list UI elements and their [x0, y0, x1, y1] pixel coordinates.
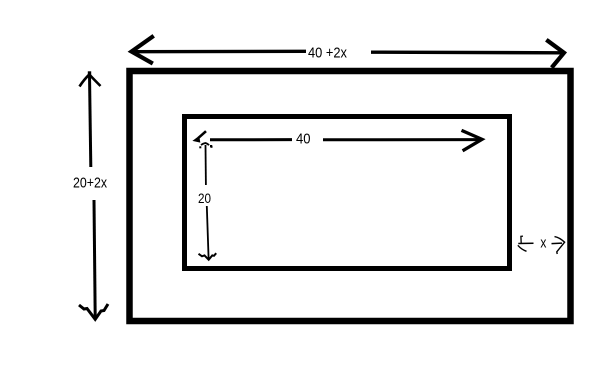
svg-text:40: 40: [296, 131, 311, 148]
label "40": [296, 131, 311, 148]
dimension arrow: inner height "20", top segment: [205, 145, 207, 185]
outer rectangle: [130, 71, 571, 321]
dimension arrow: inner width "40", right segment: [323, 138, 480, 141]
margin marker: right small arrow: [552, 237, 565, 254]
dimension arrow: inner width "40", left segment: [210, 138, 292, 141]
arrowhead top of left arrow: [80, 71, 101, 86]
dimension arrow: outer width (top), left segment: [131, 50, 306, 54]
arrowhead left of top arrow: [132, 37, 153, 63]
arrowhead left of inner width arrow: [194, 131, 212, 147]
svg-text:20: 20: [198, 190, 211, 206]
dimension arrow: outer height (left), top segment: [90, 75, 91, 168]
margin marker: left small arrow: [518, 236, 534, 251]
arrowhead right of top arrow: [548, 41, 564, 66]
dimension arrow: outer height (left), bottom segment: [94, 200, 95, 317]
svg-text:40 +2x: 40 +2x: [308, 45, 347, 62]
dimension arrow: outer width (top), right segment: [371, 51, 561, 55]
arrowhead right of inner width arrow: [463, 131, 482, 150]
inner rectangle: [185, 117, 510, 269]
dimension arrow: inner height "20", bottom segment: [207, 206, 209, 259]
label "20+2x": [73, 175, 107, 192]
arrowhead top of inner height arrow: [199, 143, 212, 148]
svg-text:20+2x: 20+2x: [73, 175, 107, 192]
arrowhead bottom of left arrow: [79, 304, 108, 319]
arrowhead bottom of inner height arrow: [199, 253, 217, 260]
label "20": [198, 190, 211, 206]
label "40 +2x": [308, 45, 347, 62]
svg-text:x: x: [540, 234, 546, 251]
label "x": [540, 234, 546, 251]
